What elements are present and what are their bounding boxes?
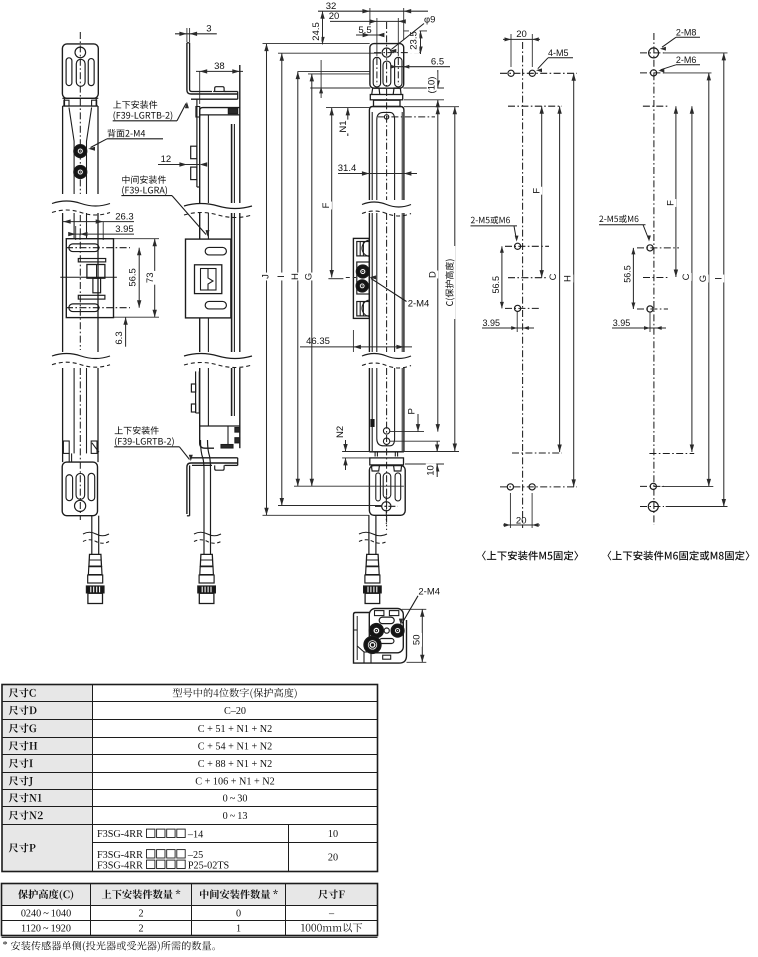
- left view middle bracket plate (F39-LGRA): [60, 239, 117, 318]
- dimension C (M5 view): [512, 106, 562, 453]
- table 2 data row 2: [21, 923, 362, 934]
- side view cable break: [194, 532, 221, 543]
- svg-text:C–20: C–20: [224, 706, 246, 717]
- svg-text:10: 10: [426, 465, 437, 476]
- left view sensor column upper section: [63, 106, 98, 194]
- center view M12 connector: [364, 554, 382, 603]
- dimension 6.5: [391, 56, 450, 68]
- left view column lower section: [63, 368, 98, 462]
- dimension 31.4: [338, 163, 417, 176]
- dimension F (M5 view): [508, 106, 562, 278]
- side view middle bracket (F39-LGRA): [186, 239, 231, 318]
- dimension 3.95 (M6M8 view): [612, 312, 666, 332]
- svg-text:0240 ~ 1040: 0240 ~ 1040: [21, 908, 71, 919]
- dimension C (M6M8 view): [649, 106, 694, 453]
- svg-text:H: H: [290, 273, 301, 280]
- dimension I (M6M8 view): [714, 53, 727, 507]
- label 2-M6 with leader: [658, 55, 700, 73]
- left view top mounting bracket plate (F39-LGRTB-2): [62, 44, 98, 98]
- center view cable break: [359, 532, 387, 543]
- bottom view bracket plate: [369, 609, 403, 660]
- left view bottom bracket plate (F39-LGRTB-2): [62, 441, 99, 516]
- svg-text:1120 ~ 1920: 1120 ~ 1920: [21, 923, 71, 934]
- dimension F (M6M8 view): [643, 106, 678, 277]
- left view column middle section: [63, 213, 98, 352]
- dimension D: [428, 107, 441, 432]
- label 2-M8 with leader: [660, 28, 700, 51]
- center view break line lower: [362, 354, 411, 369]
- side view column lower: [200, 368, 240, 448]
- dimension 20 top (M5 view): [503, 29, 540, 67]
- svg-text:F: F: [666, 200, 677, 206]
- svg-text:(10): (10): [427, 77, 438, 94]
- svg-text:6.5: 6.5: [431, 56, 444, 67]
- label 2-M4 bottom view with leader: [399, 587, 440, 626]
- label 中间安装件 (F39-LGRA): [121, 175, 209, 236]
- dimension 73: [114, 239, 159, 318]
- center view cable: [369, 515, 376, 554]
- left view cable break: [83, 532, 109, 543]
- right extension lines (D C): [404, 106, 459, 108]
- left view break line lower: [52, 354, 110, 368]
- M6M8 top extension lines: [663, 53, 727, 73]
- center view top bracket plate: [370, 44, 420, 89]
- svg-text:*: *: [3, 940, 8, 951]
- svg-text:0 ~ 13: 0 ~ 13: [223, 811, 248, 822]
- left view rear screw 2 (2-M4): [74, 165, 87, 178]
- side view cable: [201, 440, 211, 554]
- side view break line upper: [184, 204, 252, 218]
- label φ9 with leader: [390, 15, 436, 53]
- svg-text:24.5: 24.5: [311, 22, 322, 41]
- svg-text:D: D: [428, 271, 439, 278]
- dimension 12: [158, 154, 207, 167]
- table 1 dimension formulas - background and grid: [2, 685, 378, 872]
- left view M12 connector: [86, 554, 104, 603]
- svg-text:–25: –25: [187, 850, 203, 861]
- side view break line lower: [184, 354, 252, 368]
- center view first beam mark: [378, 115, 435, 119]
- table 1 P row model numbers: [97, 829, 338, 872]
- svg-text:2-M6: 2-M6: [676, 55, 697, 65]
- svg-text:38: 38: [214, 61, 225, 72]
- svg-text:C + 88 + N1 + N2: C + 88 + N1 + N2: [198, 759, 272, 770]
- dimension 56.5 (M5 view): [491, 246, 504, 308]
- svg-text:φ9: φ9: [424, 15, 435, 26]
- dimension 10 bottom right: [405, 441, 444, 477]
- label 2-M4 middle with leader: [369, 275, 429, 309]
- center view middle bracket (F39-LGRA): [353, 238, 369, 318]
- dimension C(保护高度): [444, 107, 457, 451]
- left view middle bracket clamp: [78, 259, 105, 300]
- table 1 formula values: [173, 688, 297, 822]
- dimension H (M5 view): [563, 73, 576, 487]
- dimension G: [303, 74, 314, 486]
- svg-text:C: C: [548, 273, 559, 280]
- M6M8 bottom extension lines: [662, 486, 728, 506]
- dimension 23.5: [403, 28, 427, 54]
- bottom view connector circle: [364, 636, 381, 653]
- svg-text:6.3: 6.3: [114, 331, 125, 344]
- dimension 3.95 (M5 view): [482, 311, 534, 332]
- svg-text:I: I: [714, 277, 725, 280]
- svg-text:2: 2: [138, 908, 143, 919]
- svg-text:10: 10: [328, 829, 338, 840]
- svg-text:P25-02TS: P25-02TS: [188, 861, 230, 872]
- side view top bracket vertical plate: [187, 43, 238, 99]
- dimension 32: [318, 1, 428, 40]
- M6M8 view top holes: [640, 48, 664, 76]
- dimension 24.5: [311, 11, 325, 44]
- svg-text:26.3: 26.3: [115, 211, 134, 222]
- center view break line upper: [362, 202, 411, 216]
- dimension G (M6M8 view): [698, 73, 711, 487]
- left view vertical centerline: [79, 32, 81, 520]
- dimension N2: [335, 425, 459, 470]
- caption 上下安装件M6固定或M8固定: [608, 551, 750, 561]
- svg-text:2-M8: 2-M8: [676, 28, 697, 38]
- svg-text:C: C: [681, 273, 692, 280]
- center view column: [369, 107, 404, 201]
- dimension P: [390, 407, 440, 441]
- svg-text:12: 12: [161, 154, 172, 165]
- dimension 20 bottom (M5 view): [503, 493, 540, 528]
- footnote: [3, 940, 216, 952]
- svg-text:0 ~ 30: 0 ~ 30: [223, 793, 248, 804]
- svg-text:–: –: [328, 908, 335, 919]
- svg-text:31.4: 31.4: [338, 163, 357, 174]
- svg-text:N2: N2: [335, 426, 346, 438]
- middle bracket slot centerlines: [66, 248, 130, 308]
- svg-text:C + 51 + N1 + N2: C + 51 + N1 + N2: [198, 724, 272, 735]
- svg-text:5.5: 5.5: [358, 25, 371, 36]
- table 2 data row 1: [21, 908, 335, 919]
- dimension 6.3: [114, 317, 128, 348]
- svg-text:2-M4: 2-M4: [408, 299, 430, 310]
- M6M8 view centerline: [653, 33, 655, 525]
- dimension 50: [402, 609, 427, 662]
- svg-text:G: G: [303, 273, 314, 280]
- svg-text:20: 20: [329, 11, 340, 22]
- side view bottom cap: [200, 426, 240, 448]
- dimension F: [321, 108, 356, 279]
- side view bottom bracket: [187, 458, 238, 516]
- svg-text:F: F: [321, 202, 332, 208]
- side view bracket lower arm: [197, 99, 200, 187]
- side view M12 connector: [198, 554, 216, 603]
- dimension I: [276, 53, 287, 505]
- svg-text:3.95: 3.95: [483, 318, 501, 328]
- left extension lines top (J I H G): [263, 44, 382, 88]
- dimension 3.95: [68, 224, 134, 240]
- left view sensor top cap and hooks: [63, 98, 98, 106]
- side view sensor column body upper: [200, 65, 240, 203]
- svg-text:2: 2: [138, 923, 143, 934]
- svg-text:73: 73: [145, 273, 156, 284]
- svg-text:20: 20: [516, 515, 527, 526]
- svg-text:20: 20: [328, 852, 338, 863]
- svg-text:56.5: 56.5: [622, 265, 632, 283]
- svg-text:3.95: 3.95: [115, 224, 134, 235]
- left view cable: [92, 516, 99, 555]
- extension tick near G: [319, 60, 323, 98]
- svg-text:1: 1: [236, 923, 241, 934]
- svg-text:3: 3: [206, 23, 211, 34]
- svg-text:F3SG-4RR: F3SG-4RR: [97, 829, 143, 840]
- M5 view middle holes (2-M5或M6): [505, 243, 549, 311]
- dimension (10): [403, 70, 444, 107]
- svg-text:P: P: [406, 408, 417, 414]
- svg-text:46.35: 46.35: [306, 336, 330, 347]
- center view column middle section: [369, 213, 404, 352]
- side view clamp tabs: [191, 146, 197, 179]
- dimension 56.5: [128, 248, 142, 308]
- side view bracket screw bump: [213, 87, 225, 92]
- table 1 row labels 尺寸C..尺寸P: [9, 688, 43, 853]
- svg-text:56.5: 56.5: [128, 268, 139, 287]
- dimension 56.5 (M6M8 view): [622, 248, 635, 309]
- bottom view sensor outline: [354, 613, 407, 664]
- svg-text:2-M4: 2-M4: [418, 587, 440, 598]
- center view column bottom section: [369, 368, 404, 452]
- svg-text:50: 50: [411, 635, 422, 646]
- svg-text:C + 106 + N1 + N2: C + 106 + N1 + N2: [195, 776, 275, 787]
- bottom view bracket screws: [369, 623, 404, 637]
- label 上下安装件 (F39-LGRTB-2) bottom: [114, 426, 193, 461]
- dimension 46.35: [300, 330, 412, 352]
- svg-text:3.95: 3.95: [613, 318, 631, 328]
- M5 view top holes (4-M5): [500, 70, 577, 76]
- svg-text:I: I: [276, 275, 287, 278]
- label 背面2-M4: [88, 129, 163, 151]
- label 上下安装件 (F39-LGRTB-2) top: [113, 100, 189, 120]
- svg-text:F: F: [532, 188, 543, 194]
- side view sensor column top cap: [196, 107, 240, 118]
- dimension 26.3: [62, 211, 134, 240]
- dimension N1: [326, 108, 369, 136]
- center view beam marks bottom: [371, 420, 390, 445]
- left view break line upper: [52, 201, 110, 215]
- svg-text:G: G: [698, 275, 709, 282]
- side view lower bracket arm and tabs: [191, 371, 199, 413]
- caption 上下安装件M5固定: [482, 551, 578, 561]
- table 2 bracket quantity - background and grid: [2, 884, 378, 938]
- label 2-M5或M6 (M5 view): [471, 216, 519, 242]
- dimension 3 (bracket thickness): [175, 23, 217, 42]
- dimension 38: [196, 61, 243, 104]
- svg-text:C + 54 + N1 + N2: C + 54 + N1 + N2: [198, 741, 272, 752]
- svg-text:H: H: [563, 275, 574, 282]
- center view middle bracket screws (2-M4): [356, 265, 369, 292]
- label 4-M5 with leader: [536, 48, 573, 72]
- svg-text:20: 20: [516, 29, 527, 40]
- center view vertical centerline: [386, 22, 388, 530]
- left view rear screw 1 (2-M4): [74, 145, 87, 158]
- dimension H: [290, 72, 301, 487]
- svg-text:F3SG-4RR: F3SG-4RR: [97, 850, 143, 861]
- M5 view centerline: [522, 42, 524, 528]
- svg-text:0: 0: [236, 908, 241, 919]
- side view column through middle bracket: [200, 213, 240, 352]
- dimension J: [261, 44, 272, 516]
- dimension 20: [329, 11, 406, 56]
- center view bottom bracket: [369, 452, 405, 524]
- left extension lines bottom (G H I J): [263, 486, 404, 515]
- table 2 header row: [18, 889, 345, 900]
- svg-text:N1: N1: [338, 120, 349, 132]
- label 2-M5或M6 (M6M8 view): [599, 215, 651, 242]
- dimension 5.5: [356, 25, 384, 37]
- svg-text:–14: –14: [187, 830, 203, 841]
- M6M8 view bottom holes: [640, 483, 664, 511]
- M5 view bottom holes: [500, 484, 577, 490]
- svg-text:56.5: 56.5: [491, 276, 501, 294]
- M6M8 view middle holes: [637, 245, 679, 312]
- svg-text:F3SG-4RR: F3SG-4RR: [97, 861, 143, 872]
- svg-text:4-M5: 4-M5: [548, 48, 569, 58]
- svg-text:J: J: [261, 274, 272, 279]
- center view bracket feet and base plate: [370, 88, 402, 107]
